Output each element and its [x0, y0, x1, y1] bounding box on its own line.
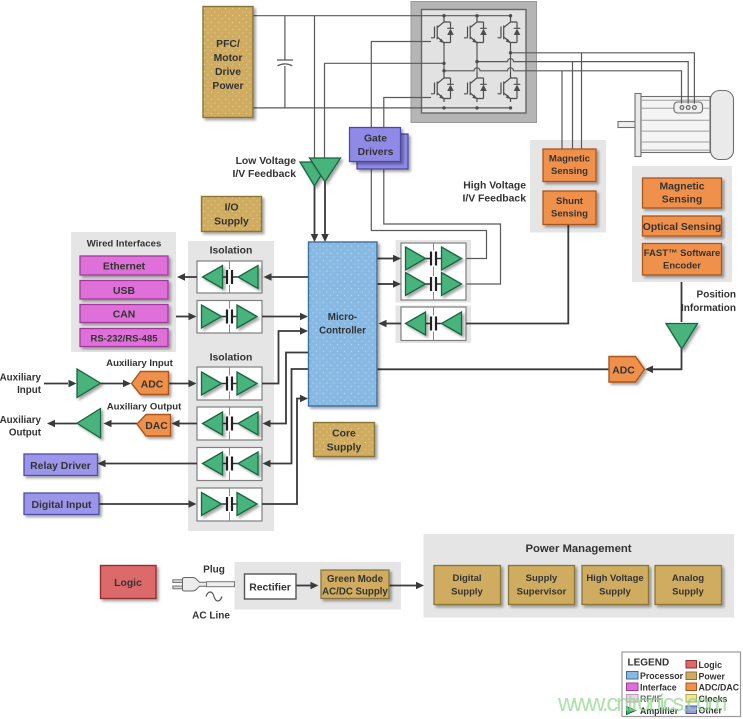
svg-text:Micro-: Micro- — [328, 312, 357, 323]
wire MCU to isolator (relay) — [271, 369, 309, 464]
amplifier aux output — [77, 409, 101, 439]
svg-text:High Voltage: High Voltage — [586, 573, 643, 584]
svg-text:Controller: Controller — [319, 326, 366, 337]
svg-text:Auxiliary Input: Auxiliary Input — [106, 358, 173, 369]
box Green Mode AC/DC Supply — [321, 570, 389, 599]
box Digital Supply — [434, 566, 501, 605]
wire phase stub 3 — [510, 46, 512, 72]
box PFC/Motor Drive Power — [203, 7, 253, 118]
plug icon — [173, 578, 235, 592]
panel right-iso A — [396, 240, 472, 303]
wire DC- rail — [253, 107, 511, 109]
svg-text:Rectifier: Rectifier — [249, 583, 291, 594]
svg-text:Supervisor: Supervisor — [517, 587, 567, 598]
wire phase 3 — [511, 53, 695, 104]
svg-text:Processor: Processor — [640, 671, 684, 681]
wire MCU to isolator (ethernet row) — [272, 276, 309, 278]
wire phase stub 1 — [443, 46, 445, 72]
wire magnetic tap 2 — [572, 62, 574, 149]
wire gate drive B — [384, 98, 431, 170]
svg-text:Auxiliary Output: Auxiliary Output — [107, 402, 182, 413]
svg-text:AC/DC Supply: AC/DC Supply — [322, 587, 388, 598]
wire gate drive A — [371, 42, 431, 170]
wire phase 1 — [444, 68, 682, 104]
transistor Q3 — [498, 16, 521, 46]
box Rectifier — [245, 574, 297, 599]
isolator cell G2R4 (Digital input, right-pointing) — [197, 488, 262, 521]
box Magnetic Sensing 1 — [543, 149, 596, 182]
svg-text:Digital Input: Digital Input — [31, 500, 92, 511]
motor end cap — [711, 91, 734, 160]
motor left plate — [635, 94, 641, 157]
box Ethernet — [80, 256, 168, 275]
svg-text:Supply: Supply — [526, 573, 558, 584]
svg-text:Relay Driver: Relay Driver — [30, 461, 91, 472]
motor body — [641, 97, 710, 153]
wire isolator to relay driver — [106, 463, 198, 465]
legend Other — [686, 706, 697, 714]
svg-text:Power Management: Power Management — [525, 543, 631, 555]
wire position ADC to MCU — [377, 368, 609, 370]
motor shaft — [618, 122, 636, 128]
amplifier position info — [666, 324, 698, 350]
svg-text:Plug: Plug — [203, 565, 225, 576]
DAC aux output — [137, 415, 171, 437]
capacitor C1 plates — [277, 60, 293, 66]
box Core Supply — [314, 423, 375, 457]
box Shunt Sensing — [543, 191, 596, 225]
wire phase stub 2 — [476, 46, 478, 72]
svg-text:Supply: Supply — [672, 587, 704, 598]
svg-text:Sensing: Sensing — [551, 209, 588, 220]
svg-text:Auxiliary: Auxiliary — [0, 415, 42, 426]
wire wired interfaces to isolator (CAN row) — [176, 316, 189, 318]
svg-text:High Voltage: High Voltage — [463, 181, 526, 192]
svg-text:CAN: CAN — [113, 310, 136, 321]
svg-text:LEGEND: LEGEND — [628, 658, 670, 669]
ADC aux input — [132, 372, 169, 395]
box Gate Drivers back — [357, 134, 408, 169]
svg-text:Ethernet: Ethernet — [103, 262, 146, 273]
wire MCU to gate isolator row2 — [377, 283, 393, 285]
box Analog Supply — [655, 566, 722, 605]
isolator block right B (shunt feedback, 2 triangles left-pointing) — [401, 307, 466, 341]
svg-text:Green Mode: Green Mode — [327, 574, 384, 585]
wire DC+ rail — [253, 15, 511, 17]
box CAN — [80, 305, 168, 323]
box Magnetic Sensing 2 — [643, 178, 722, 208]
legend ADC/DAC — [686, 683, 697, 691]
wire LV feedback out 1 into MCU — [314, 184, 316, 240]
capacitor C1 branch wire top — [284, 16, 286, 60]
svg-text:FAST™ Software: FAST™ Software — [644, 248, 721, 259]
amplifier LV feedback 2 — [310, 158, 341, 182]
box FAST Software Encoder — [643, 244, 722, 276]
legend Interface — [627, 683, 639, 691]
svg-text:USB: USB — [113, 286, 135, 297]
box Logic — [101, 566, 157, 599]
wire DAC to amp — [112, 423, 138, 425]
wire amp to aux output — [55, 423, 77, 425]
svg-text:Isolation: Isolation — [210, 246, 253, 257]
wire amp to ADC — [101, 383, 124, 385]
svg-text:Logic: Logic — [699, 660, 723, 670]
transistor Q2 — [464, 16, 487, 46]
box Digital Input — [24, 493, 99, 515]
panel Isolation column — [188, 241, 274, 531]
legend Power — [686, 672, 697, 680]
svg-text:Optical Sensing: Optical Sensing — [643, 222, 722, 233]
wire ADC to isolator — [169, 383, 189, 385]
svg-text:ADC: ADC — [141, 380, 164, 391]
svg-text:Low Voltage: Low Voltage — [236, 156, 297, 167]
wire LV feedback tap V+ — [314, 16, 316, 162]
wire encoder to position amp — [681, 282, 683, 322]
panel right-iso B — [396, 306, 472, 344]
svg-text:Input: Input — [17, 385, 42, 396]
isolator cell G2R2 (Aux output, left-pointing) — [197, 407, 262, 440]
svg-text:Power: Power — [212, 81, 243, 92]
svg-text:Drivers: Drivers — [358, 147, 394, 158]
wire aux input to amp — [44, 383, 68, 385]
panel magnetic/shunt sensing — [530, 140, 606, 233]
svg-text:Sensing: Sensing — [662, 195, 702, 206]
box USB — [80, 281, 168, 300]
svg-text:Auxiliary: Auxiliary — [0, 373, 42, 384]
svg-text:Wired Interfaces: Wired Interfaces — [87, 239, 162, 250]
svg-text:www.cntronics.com: www.cntronics.com — [557, 690, 726, 717]
wire digital input to isolator — [99, 503, 189, 505]
legend Clocks — [686, 695, 697, 703]
amplifier aux input — [77, 369, 101, 398]
svg-text:Supply: Supply — [599, 587, 631, 598]
panel Power Management — [424, 534, 735, 618]
svg-text:Gate: Gate — [364, 134, 387, 145]
wire shunt sensing down to isolator — [466, 225, 568, 324]
IGBT bridge inner block — [422, 10, 527, 114]
wire MCU to isolator (aux out) — [271, 353, 309, 424]
svg-text:Power: Power — [699, 672, 726, 682]
motor terminal pins — [680, 106, 684, 110]
capacitor C1 branch wire bottom — [284, 66, 286, 108]
wire green mode supply to power management — [389, 585, 416, 587]
svg-text:Analog: Analog — [672, 573, 704, 584]
node dots rails — [442, 14, 512, 110]
wire isolator to MCU (CAN row) — [262, 316, 300, 318]
svg-text:Supply: Supply — [214, 217, 249, 228]
ADC position — [609, 357, 645, 383]
box High Voltage Supply — [582, 566, 649, 605]
legend Amplifier — [627, 707, 636, 715]
wire position amp to ADC — [653, 349, 682, 369]
box I/O Supply — [202, 197, 262, 232]
motor terminal box — [674, 102, 703, 113]
isolator cell G1R1 (Ethernet row, left-pointing) — [197, 261, 262, 293]
svg-text:I/V Feedback: I/V Feedback — [462, 194, 526, 205]
wire gate return row1 — [371, 169, 486, 259]
amplifier LV feedback 1 — [300, 162, 329, 186]
panel encoder — [632, 166, 732, 282]
transistor Q5 — [464, 72, 487, 102]
svg-text:Information: Information — [681, 303, 736, 314]
svg-text:I/O: I/O — [225, 203, 239, 214]
box Micro-Controller — [309, 242, 378, 406]
panel AC supply — [235, 562, 402, 610]
IGBT bridge outer block — [411, 2, 537, 123]
wire shunt isolator to MCU — [387, 323, 402, 325]
box Optical Sensing — [643, 216, 722, 236]
svg-text:Supply: Supply — [451, 587, 483, 598]
box Relay Driver — [24, 454, 98, 476]
svg-text:ADC: ADC — [612, 366, 635, 377]
wire magnetic tap 3 — [581, 53, 583, 149]
svg-text:Magnetic: Magnetic — [549, 154, 590, 165]
svg-text:Drive: Drive — [215, 67, 241, 78]
box Gate Drivers front — [350, 128, 401, 162]
AC line sine — [206, 592, 222, 601]
svg-text:DAC: DAC — [145, 421, 168, 432]
svg-text:Magnetic: Magnetic — [659, 182, 704, 193]
svg-text:RS-232/RS-485: RS-232/RS-485 — [90, 334, 158, 345]
wire LV feedback out 2 into MCU — [324, 180, 326, 240]
wire gate return row2 — [384, 169, 501, 284]
transistor Q4 — [431, 72, 454, 102]
svg-text:I/V Feedback: I/V Feedback — [232, 169, 296, 180]
svg-text:Position: Position — [697, 290, 736, 301]
legend box — [622, 652, 741, 717]
wire magnetic tap 1 — [561, 71, 563, 149]
svg-text:AC Line: AC Line — [192, 611, 230, 622]
box RS-232/RS-485 — [80, 329, 168, 347]
svg-text:Shunt: Shunt — [556, 196, 584, 207]
isolator cell G2R3 (Relay, left-pointing) — [197, 448, 262, 481]
legend Processor — [627, 672, 639, 680]
svg-text:Supply: Supply — [327, 443, 362, 454]
isolator cell G2R1 (Aux input, right-pointing) — [197, 367, 262, 400]
legend RF/IF — [627, 695, 639, 703]
svg-text:Output: Output — [9, 428, 42, 439]
wire isolator to DAC — [180, 423, 198, 425]
wire rectifier to green mode supply — [296, 585, 311, 587]
wire phase 2 — [477, 59, 688, 104]
wire LV feedback tap phase — [325, 63, 445, 158]
panel Wired Interfaces — [71, 232, 176, 352]
transistor Q1 — [431, 16, 454, 46]
transistor Q6 — [498, 72, 521, 102]
svg-text:Encoder: Encoder — [663, 261, 701, 272]
box Supply Supervisor — [509, 566, 575, 605]
svg-text:Digital: Digital — [452, 573, 481, 584]
isolator block right A (gate drive, 4 triangles right-pointing) — [401, 243, 466, 300]
svg-text:Motor: Motor — [214, 53, 243, 64]
wire MCU to gate isolator row1 — [377, 258, 393, 260]
wire isolator to wired interfaces — [185, 276, 197, 278]
legend Logic — [686, 661, 697, 669]
isolator cell G1R2 (CAN row, right-pointing) — [197, 301, 262, 334]
svg-text:Isolation: Isolation — [210, 353, 253, 364]
svg-text:Core: Core — [332, 429, 356, 440]
wire isolator to MCU (digital) — [262, 399, 300, 505]
svg-text:Logic: Logic — [114, 578, 142, 589]
motor body lines — [641, 100, 710, 150]
wire isolator to MCU (aux in) — [262, 331, 300, 384]
svg-text:Sensing: Sensing — [551, 166, 588, 177]
svg-text:PFC/: PFC/ — [216, 39, 240, 50]
